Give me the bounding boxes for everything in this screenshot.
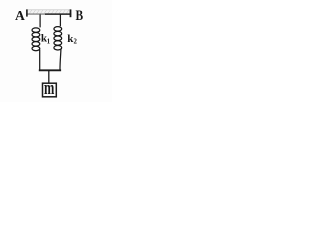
svg-text:2: 2 — [74, 39, 78, 46]
svg-text:B: B — [76, 7, 84, 24]
svg-text:1: 1 — [47, 39, 51, 46]
svg-text:m: m — [44, 79, 54, 99]
svg-text:A: A — [15, 8, 25, 23]
